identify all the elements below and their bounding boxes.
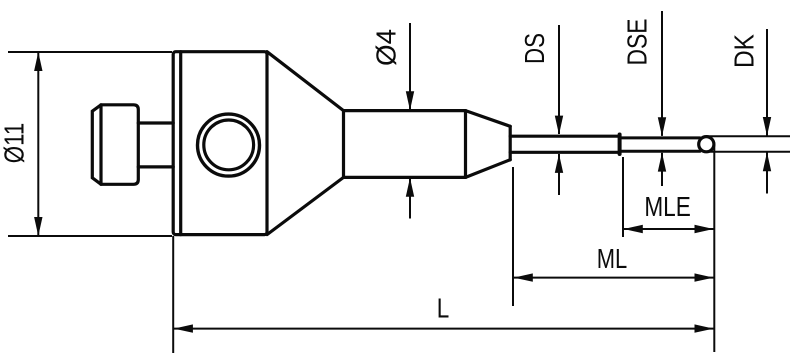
dia4 arrow down <box>406 91 414 110</box>
neck top line <box>138 121 173 124</box>
stem end cap <box>464 111 467 178</box>
nose bottom slant <box>466 160 511 178</box>
DS/DSE divider <box>618 135 622 155</box>
hole outer circle <box>198 114 260 176</box>
MLE dim line <box>624 228 714 230</box>
DK ext line bottom <box>706 151 790 153</box>
L dim line <box>174 328 714 330</box>
MLE arrow left <box>624 225 643 233</box>
ML dim line <box>514 277 714 279</box>
nose top slant <box>466 111 511 127</box>
DS dim line lower <box>558 154 560 195</box>
L arrow left <box>174 324 193 332</box>
DK arrow down <box>763 117 771 136</box>
svg-text:ML: ML <box>597 243 628 274</box>
DS dim line upper <box>558 25 560 134</box>
ball tip <box>699 137 714 152</box>
stem bottom line <box>344 176 466 179</box>
dia4 dim line upper <box>409 23 411 110</box>
nose tip face <box>509 126 512 159</box>
cone bottom slant <box>267 177 344 234</box>
DK arrow up <box>763 152 771 171</box>
ML arrow right <box>695 273 714 281</box>
DK ext line top <box>706 135 790 137</box>
dia4 dim line lower <box>409 179 411 219</box>
svg-text:DS: DS <box>519 33 550 64</box>
body left inner edge <box>179 52 182 235</box>
DSE dim line lower <box>661 153 663 186</box>
stem top line <box>344 109 466 112</box>
stylus knob head <box>92 105 138 185</box>
DS arrow up <box>555 154 563 173</box>
DS arrow down <box>555 116 563 135</box>
dia4 arrow up <box>406 178 414 197</box>
dia11 ext line top <box>8 51 172 53</box>
cone top slant <box>267 52 344 111</box>
svg-text:DSE: DSE <box>622 19 653 66</box>
DSE arrow up <box>658 153 666 172</box>
L ext line left <box>172 236 174 353</box>
hole inner circle <box>204 120 254 170</box>
DK dim line upper <box>766 29 768 136</box>
L arrow right <box>695 324 714 332</box>
DSE arrow down <box>658 117 666 136</box>
DS rod top line <box>510 135 619 138</box>
ML arrow left <box>514 273 533 281</box>
DSE rod top line <box>620 136 700 139</box>
svg-text:MLE: MLE <box>644 191 691 222</box>
svg-text:Ø4: Ø4 <box>371 29 402 66</box>
DK dim line lower <box>766 152 768 193</box>
ML ext line left <box>512 167 514 306</box>
svg-text:L: L <box>437 293 450 324</box>
svg-text:DK: DK <box>729 34 760 68</box>
dia11 arrow down <box>34 217 42 236</box>
DSE rod bottom line <box>620 150 700 153</box>
dia11 ext line bottom <box>8 235 172 237</box>
knob chamfer edge <box>99 105 102 185</box>
neck bottom line <box>138 165 173 168</box>
MLE arrow right <box>695 225 714 233</box>
body rectangle <box>173 52 267 235</box>
right ext line at ball <box>713 145 715 352</box>
DS rod bottom line <box>510 151 619 154</box>
MLE ext line left <box>622 157 624 237</box>
DSE dim line upper <box>661 11 663 136</box>
dia11 dim line <box>37 52 39 236</box>
svg-text:Ø11: Ø11 <box>0 123 29 164</box>
cone-stem junction <box>342 111 345 178</box>
dia11 arrow up <box>34 52 42 71</box>
